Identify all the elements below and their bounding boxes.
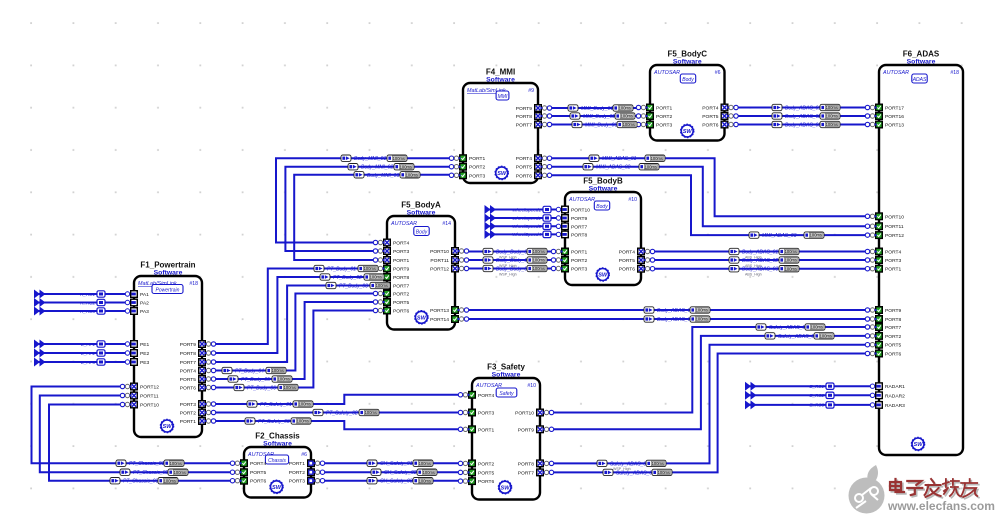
svg-text:100ms: 100ms	[284, 385, 296, 390]
svg-text:PORT10: PORT10	[571, 208, 590, 214]
svg-text:PORT5: PORT5	[516, 165, 532, 171]
svg-text:PORT5: PORT5	[702, 114, 718, 120]
svg-text:100ms: 100ms	[810, 233, 822, 238]
svg-text:AUTOSAR: AUTOSAR	[653, 70, 680, 76]
svg-text:PORT8: PORT8	[571, 232, 587, 238]
svg-text:PORT4: PORT4	[180, 369, 196, 375]
svg-text:Chassis: Chassis	[268, 458, 286, 464]
svg-text:PORT8: PORT8	[885, 317, 901, 323]
svg-text:AUTOSAR: AUTOSAR	[390, 221, 417, 227]
svg-text:100ms: 100ms	[365, 410, 377, 415]
svg-text:PORT5: PORT5	[180, 377, 196, 383]
svg-text:Powertrain: Powertrain	[156, 287, 180, 293]
svg-text:PORT6: PORT6	[702, 123, 718, 129]
svg-text:PORT10: PORT10	[515, 411, 534, 417]
svg-text:Safety: Safety	[499, 391, 514, 397]
svg-text:PORT3: PORT3	[289, 479, 305, 485]
svg-text:MMI_ADAS_01: MMI_ADAS_01	[602, 156, 637, 162]
svg-text:PORT4: PORT4	[393, 241, 409, 247]
svg-text:PORT10: PORT10	[885, 214, 904, 220]
svg-text:E_RS2: E_RS2	[809, 393, 824, 398]
svg-text:PORT4: PORT4	[478, 393, 494, 399]
svg-text:100ms: 100ms	[370, 275, 382, 280]
svg-text:PT_Safety_01: PT_Safety_01	[260, 402, 292, 408]
svg-text:PT_Body_06: PT_Body_06	[247, 386, 276, 392]
svg-text:100ms: 100ms	[533, 249, 545, 254]
svg-text:PORT7: PORT7	[518, 470, 534, 476]
svg-text:PORT5: PORT5	[250, 470, 266, 476]
svg-text:F6_ADAS: F6_ADAS	[903, 50, 940, 59]
svg-text:PORT3: PORT3	[656, 123, 672, 129]
svg-text:PE3: PE3	[140, 360, 150, 366]
svg-text:100ms: 100ms	[419, 478, 431, 483]
svg-text:CH_Safety_01: CH_Safety_01	[380, 461, 413, 467]
svg-text:PA3: PA3	[140, 309, 149, 315]
svg-text:Body: Body	[596, 204, 608, 210]
svg-text:100ms: 100ms	[170, 461, 182, 466]
svg-text:100ms: 100ms	[826, 105, 838, 110]
svg-text:PORT9: PORT9	[571, 216, 587, 222]
svg-text:F2_Chassis: F2_Chassis	[255, 432, 300, 441]
svg-text:Software: Software	[907, 59, 936, 66]
svg-text:SW: SW	[417, 316, 427, 322]
svg-text:PORT6: PORT6	[250, 479, 266, 485]
svg-text:PA2: PA2	[140, 301, 149, 307]
svg-text:WSP_High: WSP_High	[499, 272, 517, 276]
svg-text:RADAR2: RADAR2	[885, 393, 905, 399]
svg-text:www.elecfans.com: www.elecfans.com	[887, 499, 995, 513]
svg-text:Body_ADAS_02: Body_ADAS_02	[785, 114, 821, 120]
svg-text:PORT5: PORT5	[478, 470, 494, 476]
svg-text:PORT7: PORT7	[516, 123, 532, 129]
svg-text:WheelSpeed3: WheelSpeed3	[512, 224, 541, 229]
svg-text:Body_ADAS_01: Body_ADAS_01	[785, 106, 821, 112]
svg-text:PORT8: PORT8	[516, 114, 532, 120]
svg-text:PORT4: PORT4	[250, 461, 266, 467]
svg-text:PORT9: PORT9	[516, 106, 532, 112]
svg-text:PT_Chassis_02: PT_Chassis_02	[133, 470, 169, 476]
svg-text:PT_Safety_02: PT_Safety_02	[326, 411, 358, 417]
svg-text:PORT6: PORT6	[885, 352, 901, 358]
svg-text:F5_BodyC: F5_BodyC	[667, 50, 707, 59]
svg-text:Software: Software	[673, 59, 702, 66]
svg-text:PORT1: PORT1	[885, 267, 901, 273]
svg-text:100ms: 100ms	[272, 368, 284, 373]
svg-text:PORT1: PORT1	[656, 106, 672, 112]
svg-text:PORT2: PORT2	[656, 114, 672, 120]
svg-text:Software: Software	[263, 441, 292, 448]
svg-text:Safety_ADAS_04: Safety_ADAS_04	[616, 470, 655, 476]
svg-text:PORT16: PORT16	[885, 114, 904, 120]
svg-text:PORT11: PORT11	[140, 394, 159, 400]
svg-text:F3_Safety: F3_Safety	[487, 363, 525, 372]
svg-text:PORT3: PORT3	[393, 249, 409, 255]
svg-text:100ms: 100ms	[651, 156, 663, 161]
svg-text:#10: #10	[527, 383, 536, 389]
svg-text:100ms: 100ms	[174, 470, 186, 475]
svg-text:PORT7: PORT7	[180, 360, 196, 366]
svg-text:100ms: 100ms	[376, 283, 388, 288]
svg-text:PT_Body_01: PT_Body_01	[327, 267, 356, 273]
svg-text:PORT5: PORT5	[393, 300, 409, 306]
svg-text:100ms: 100ms	[423, 470, 435, 475]
svg-text:WheelSpeed1: WheelSpeed1	[512, 207, 541, 212]
svg-text:A_HC2: A_HC2	[79, 300, 95, 305]
svg-text:PORT7: PORT7	[885, 325, 901, 331]
svg-text:PORT1: PORT1	[289, 461, 305, 467]
svg-text:#18: #18	[950, 70, 959, 76]
svg-text:Body: Body	[416, 229, 428, 235]
svg-text:F4_MMI: F4_MMI	[486, 68, 515, 77]
svg-text:MMI_Body_02: MMI_Body_02	[583, 114, 615, 120]
svg-text:E_RS1: E_RS1	[809, 384, 824, 389]
svg-text:PORT8: PORT8	[180, 351, 196, 357]
svg-text:PT_Chassis_01: PT_Chassis_01	[129, 461, 165, 467]
svg-text:100ms: 100ms	[623, 122, 635, 127]
svg-text:PORT5: PORT5	[885, 343, 901, 349]
svg-text:MMI_ADAS_03: MMI_ADAS_03	[762, 233, 797, 239]
svg-text:100ms: 100ms	[533, 258, 545, 263]
svg-text:100ms: 100ms	[820, 334, 832, 339]
svg-text:Body_MMI_02: Body_MMI_02	[361, 165, 393, 171]
svg-text:E_AF3: E_AF3	[81, 360, 95, 365]
svg-text:#9: #9	[528, 88, 534, 94]
svg-text:PORT6: PORT6	[619, 267, 635, 273]
svg-text:PORT9: PORT9	[518, 427, 534, 433]
svg-text:Body_ADAS_01: Body_ADAS_01	[657, 308, 693, 314]
svg-text:PE1: PE1	[140, 342, 150, 348]
svg-text:Software: Software	[492, 372, 521, 379]
svg-text:PORT1: PORT1	[180, 419, 196, 425]
svg-text:PORT2: PORT2	[289, 470, 305, 476]
svg-text:#18: #18	[189, 281, 198, 287]
svg-text:AUTOSAR: AUTOSAR	[882, 70, 909, 76]
svg-text:PT_Safety_03: PT_Safety_03	[258, 419, 290, 425]
svg-text:100ms: 100ms	[299, 402, 311, 407]
svg-text:100ms: 100ms	[297, 419, 309, 424]
svg-text:E_AF2: E_AF2	[81, 351, 95, 356]
svg-text:PORT14: PORT14	[430, 317, 449, 323]
svg-text:Body_MMI_01: Body_MMI_01	[354, 156, 386, 162]
svg-text:PORT3: PORT3	[469, 173, 485, 179]
svg-text:100ms: 100ms	[826, 122, 838, 127]
svg-text:100ms: 100ms	[278, 377, 290, 382]
svg-text:Software: Software	[407, 210, 436, 217]
svg-text:PT_Body_04: PT_Body_04	[235, 369, 264, 375]
svg-text:PORT12: PORT12	[430, 267, 449, 273]
svg-text:PORT2: PORT2	[469, 165, 485, 171]
svg-text:#6: #6	[301, 452, 307, 458]
svg-text:PT_Body_03: PT_Body_03	[339, 284, 368, 290]
svg-text:WheelSpeed4: WheelSpeed4	[512, 232, 541, 237]
svg-text:PORT1: PORT1	[393, 258, 409, 264]
svg-text:PORT1: PORT1	[571, 250, 587, 256]
svg-text:SW: SW	[500, 485, 510, 491]
svg-text:100ms: 100ms	[364, 266, 376, 271]
svg-text:100ms: 100ms	[652, 461, 664, 466]
svg-text:PT_Body_05: PT_Body_05	[241, 377, 270, 383]
svg-text:PORT1: PORT1	[478, 427, 494, 433]
svg-text:100ms: 100ms	[619, 106, 631, 111]
svg-text:PORT3: PORT3	[478, 411, 494, 417]
svg-text:WheelSpeed2: WheelSpeed2	[512, 216, 541, 221]
svg-text:SW: SW	[598, 273, 608, 279]
svg-text:PORT6: PORT6	[478, 479, 494, 485]
svg-text:Body_ADAS_02: Body_ADAS_02	[657, 317, 693, 323]
svg-text:PORT7: PORT7	[571, 224, 587, 230]
svg-text:F5_BodyB: F5_BodyB	[583, 177, 623, 186]
svg-text:100ms: 100ms	[164, 478, 176, 483]
svg-text:PORT4: PORT4	[702, 106, 718, 112]
svg-text:100ms: 100ms	[400, 164, 412, 169]
svg-text:100ms: 100ms	[658, 470, 670, 475]
svg-text:CH_Safety_03: CH_Safety_03	[380, 479, 413, 485]
svg-text:PORT2: PORT2	[571, 258, 587, 264]
svg-text:PORT3: PORT3	[885, 258, 901, 264]
svg-text:#10: #10	[628, 197, 637, 203]
svg-text:E_AF1: E_AF1	[81, 342, 95, 347]
svg-text:PORT4: PORT4	[619, 250, 635, 256]
svg-text:PORT2: PORT2	[393, 292, 409, 298]
svg-text:PORT9: PORT9	[180, 342, 196, 348]
svg-text:PORT7: PORT7	[393, 284, 409, 290]
svg-text:E_RS3: E_RS3	[809, 403, 824, 408]
svg-text:PORT4: PORT4	[516, 156, 532, 162]
svg-text:Software: Software	[154, 270, 183, 277]
svg-text:PORT3: PORT3	[571, 267, 587, 273]
svg-text:100ms: 100ms	[621, 114, 633, 119]
svg-text:A_HC1: A_HC1	[79, 292, 95, 297]
svg-text:Safety_ADAS_02: Safety_ADAS_02	[778, 334, 817, 340]
svg-text:PORT1: PORT1	[469, 156, 485, 162]
svg-text:ADAS: ADAS	[912, 77, 927, 83]
svg-text:F1_Powertrain: F1_Powertrain	[140, 261, 195, 270]
svg-text:Safety_ADAS_01: Safety_ADAS_01	[769, 325, 808, 331]
svg-text:PORT2: PORT2	[885, 334, 901, 340]
svg-text:PORT2: PORT2	[478, 461, 494, 467]
svg-text:Software: Software	[486, 77, 515, 84]
svg-text:100ms: 100ms	[645, 164, 657, 169]
svg-text:PORT11: PORT11	[430, 258, 449, 264]
svg-text:SW: SW	[913, 442, 923, 448]
svg-text:PORT13: PORT13	[885, 123, 904, 129]
svg-text:A_HC3: A_HC3	[79, 309, 95, 314]
svg-text:PT_Body_02: PT_Body_02	[333, 275, 362, 281]
svg-text:100ms: 100ms	[406, 172, 418, 177]
svg-text:100ms: 100ms	[785, 266, 797, 271]
svg-text:CH_Safety_02: CH_Safety_02	[384, 470, 417, 476]
svg-text:Body_MMI_03: Body_MMI_03	[367, 173, 399, 179]
svg-text:PORT9: PORT9	[393, 267, 409, 273]
svg-text:100ms: 100ms	[785, 249, 797, 254]
svg-text:Body_ADAS_03: Body_ADAS_03	[785, 123, 821, 129]
svg-text:PE2: PE2	[140, 351, 150, 357]
svg-text:PORT5: PORT5	[619, 258, 635, 264]
svg-text:PORT8: PORT8	[393, 275, 409, 281]
svg-text:100ms: 100ms	[811, 325, 823, 330]
svg-text:PORT17: PORT17	[885, 106, 904, 112]
svg-text:PORT4: PORT4	[885, 250, 901, 256]
svg-text:PORT9: PORT9	[885, 308, 901, 314]
svg-text:PORT10: PORT10	[430, 249, 449, 255]
svg-text:SW: SW	[497, 171, 507, 177]
svg-text:#6: #6	[715, 70, 721, 76]
svg-text:PORT11: PORT11	[885, 224, 904, 230]
svg-text:PORT8: PORT8	[518, 461, 534, 467]
svg-text:SW: SW	[162, 424, 172, 430]
svg-text:100ms: 100ms	[393, 156, 405, 161]
svg-text:PORT13: PORT13	[430, 308, 449, 314]
svg-text:100ms: 100ms	[696, 308, 708, 313]
svg-text:Software: Software	[589, 186, 618, 193]
svg-text:PA1: PA1	[140, 292, 149, 298]
svg-text:PORT2: PORT2	[180, 411, 196, 417]
svg-text:PORT6: PORT6	[180, 386, 196, 392]
svg-text:PORT10: PORT10	[140, 403, 159, 409]
svg-text:100ms: 100ms	[419, 461, 431, 466]
svg-text:F5_BodyA: F5_BodyA	[401, 201, 441, 210]
svg-text:RADAR3: RADAR3	[885, 403, 905, 409]
svg-text:PORT3: PORT3	[180, 402, 196, 408]
svg-text:MMI_ADAS_02: MMI_ADAS_02	[596, 165, 631, 171]
svg-text:SW: SW	[272, 485, 282, 491]
svg-text:PORT6: PORT6	[393, 309, 409, 315]
svg-text:#14: #14	[442, 221, 451, 227]
svg-text:MMI_Body_01: MMI_Body_01	[581, 106, 613, 112]
svg-text:Body: Body	[682, 77, 694, 83]
svg-text:AUTOSAR: AUTOSAR	[568, 197, 595, 203]
svg-text:100ms: 100ms	[785, 258, 797, 263]
svg-text:100ms: 100ms	[826, 114, 838, 119]
svg-text:SW: SW	[683, 129, 693, 135]
svg-text:MMI: MMI	[498, 94, 508, 100]
svg-text:PORT12: PORT12	[885, 233, 904, 239]
svg-text:PORT6: PORT6	[516, 173, 532, 179]
svg-text:PT_Chassis_03: PT_Chassis_03	[123, 479, 159, 485]
svg-text:PORT12: PORT12	[140, 385, 159, 391]
svg-text:100ms: 100ms	[533, 266, 545, 271]
svg-text:MMI_Body_03: MMI_Body_03	[585, 123, 617, 129]
svg-text:RADAR1: RADAR1	[885, 384, 905, 390]
svg-text:100ms: 100ms	[696, 317, 708, 322]
svg-text:ABS_High: ABS_High	[745, 273, 762, 277]
